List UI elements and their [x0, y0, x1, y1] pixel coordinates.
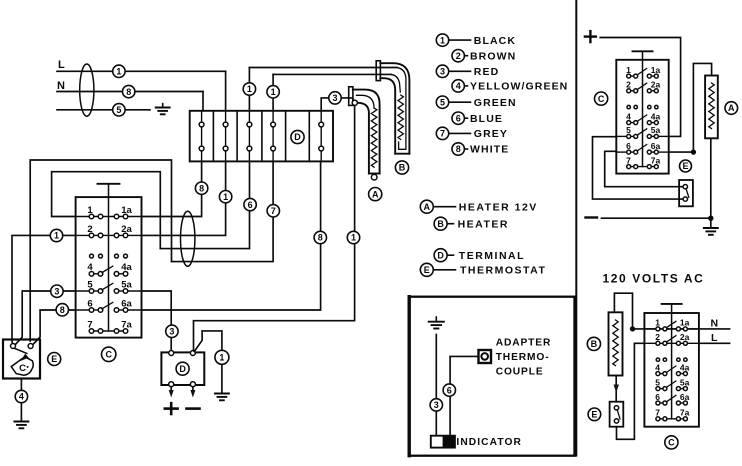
wire 1: terminal D to ground [194, 331, 222, 393]
wire N to strip cell1 [57, 91, 203, 93]
svg-text:1: 1 [223, 192, 228, 202]
svg-text:1: 1 [440, 35, 445, 45]
svg-text:1: 1 [87, 205, 93, 216]
svg-text:HEATER 12V: HEATER 12V [459, 201, 538, 213]
wire L to strip cell2 [57, 70, 226, 72]
svg-text:6a: 6a [121, 298, 132, 309]
svg-text:6: 6 [447, 385, 452, 395]
wire 1 upper (cell3 to heater B lead) [249, 67, 397, 69]
legend tag B [434, 217, 447, 230]
svg-text:E: E [51, 354, 57, 364]
svg-text:BLACK: BLACK [474, 35, 516, 47]
wire tag 5 on earth wire [113, 104, 125, 116]
connector C2 row 7 contacts [626, 155, 660, 168]
wire 3 (cell6 to heater A terminal) [321, 98, 328, 111]
wire tag 8 [195, 182, 207, 194]
svg-text:TERMINAL: TERMINAL [459, 250, 525, 262]
legend tag 6 [452, 112, 464, 124]
connector C row 7 contacts [87, 319, 132, 333]
svg-text:7a: 7a [121, 319, 132, 330]
svg-text:8: 8 [126, 87, 131, 97]
svg-text:7: 7 [655, 408, 660, 418]
svg-text:6: 6 [87, 298, 92, 309]
label E (12V panel) [680, 160, 692, 172]
ground (12V panel) [704, 228, 718, 235]
wire 5 to ground [57, 109, 150, 111]
svg-text:6a: 6a [651, 141, 661, 151]
terminal D body [161, 351, 204, 387]
svg-text:7: 7 [87, 319, 92, 330]
svg-text:E: E [591, 410, 597, 420]
svg-text:C: C [668, 438, 675, 448]
wire 1: C row2 to thermostat E [12, 235, 76, 346]
wire tag 3 [430, 399, 442, 411]
cable sheath ellipse (mains lead) [80, 64, 94, 116]
wire tag 1 on L wire [113, 65, 125, 77]
connector C3 row 6 contacts [655, 392, 689, 405]
wire tag 1 on cell4 wire [267, 86, 279, 98]
svg-text:1: 1 [247, 84, 252, 94]
connector C2 row 2 contacts [626, 80, 660, 93]
wire tag 6 [244, 198, 256, 210]
wire 6: thermocouple to indicator [450, 356, 478, 435]
wire tag 3 [51, 285, 63, 297]
svg-text:A: A [728, 103, 735, 113]
legend tag 4 [452, 80, 464, 92]
svg-text:7: 7 [440, 129, 445, 139]
wire 8: C row6 to thermostat E [32, 310, 76, 346]
ground below terminal D [215, 394, 229, 401]
svg-text:5a: 5a [680, 377, 690, 387]
svg-text:B: B [399, 163, 406, 173]
svg-text:GREY: GREY [474, 128, 508, 140]
heater B element (120V panel) [609, 312, 623, 375]
svg-text:1: 1 [54, 231, 59, 241]
svg-text:4a: 4a [651, 111, 661, 121]
legend tag 5 [436, 96, 448, 108]
legend tag A [420, 200, 433, 213]
wire tag 1 [50, 229, 62, 241]
connector C body [76, 184, 142, 338]
wire: thermostat E to C row2 [617, 343, 645, 439]
connector C3 body [644, 304, 699, 427]
label D inside strip [291, 130, 304, 143]
svg-text:C: C [19, 363, 26, 374]
wire tag 1 [215, 350, 229, 364]
svg-text:120 VOLTS AC: 120 VOLTS AC [603, 271, 705, 285]
svg-text:BROWN: BROWN [470, 50, 516, 62]
wire 8: C row1a to strip cell1 [142, 161, 202, 216]
svg-text:2: 2 [626, 80, 631, 90]
heater B tube [376, 61, 409, 154]
connector C3 row 1 contacts [644, 318, 699, 331]
connector C2 row 6 contacts [616, 141, 668, 154]
wire 1: C row2a to strip cell2 [142, 161, 226, 235]
svg-text:B: B [437, 219, 444, 229]
svg-text:C: C [105, 350, 112, 360]
svg-text:2: 2 [655, 332, 660, 342]
wire 4: thermostat E to ground [20, 379, 22, 422]
svg-text:1: 1 [271, 87, 276, 97]
connector C2 row blank contacts [627, 105, 658, 108]
label E [48, 353, 61, 366]
svg-text:6: 6 [626, 141, 631, 151]
svg-text:5a: 5a [121, 279, 132, 290]
svg-text:BLUE: BLUE [470, 113, 503, 125]
thermostat E body [3, 340, 40, 379]
connector C3 row 2 contacts [644, 332, 699, 345]
svg-text:THERMOSTAT: THERMOSTAT [460, 265, 546, 277]
wire: C row5 to thermostat E bottom [593, 137, 684, 199]
wire: heater A bottom to minus/ground [710, 138, 712, 227]
svg-text:C: C [598, 94, 605, 104]
connector C row 4 contacts [87, 262, 132, 276]
svg-text:THERMO-: THERMO- [496, 352, 550, 363]
label C (12V panel) [595, 92, 608, 105]
svg-text:E: E [682, 161, 688, 171]
terminal strip D body [190, 111, 333, 162]
legend tag 2 [452, 50, 464, 62]
svg-text:1: 1 [116, 67, 121, 77]
wire: C row6 to thermostat E top [605, 151, 683, 186]
thermostat E (12V panel) [679, 180, 693, 206]
connector C row 5 contacts [76, 279, 142, 293]
svg-text:E: E [424, 265, 430, 275]
connector C3 row 7 contacts [655, 408, 689, 421]
wire tag 1 (heater A lead) [347, 231, 359, 243]
connector C3 row blank contacts [656, 358, 687, 361]
svg-text:N: N [711, 318, 719, 330]
label C (120V panel) [665, 436, 678, 449]
connector C row 6 contacts [76, 298, 142, 312]
wire 8: C row6a to strip cell6 [142, 161, 321, 310]
legend tag 3 [436, 65, 448, 77]
svg-text:7: 7 [271, 206, 276, 216]
wire tag 3 [166, 325, 178, 337]
legend tag D [434, 249, 447, 262]
plus symbol (12V supply) [585, 31, 596, 42]
svg-text:N: N [57, 80, 65, 92]
svg-text:2a: 2a [680, 332, 690, 342]
wire loop: thermostat E around top (to wire 7) [30, 160, 171, 341]
connector C2 row 1 contacts [626, 65, 660, 78]
svg-text:YELLOW/GREEN: YELLOW/GREEN [470, 81, 568, 93]
svg-text:5: 5 [440, 97, 445, 107]
svg-text:2: 2 [87, 224, 92, 235]
svg-text:COUPLE: COUPLE [496, 366, 544, 377]
heater A tube [349, 87, 380, 180]
wire tag 8 [314, 231, 326, 243]
wire 3: C row5a to terminal D [142, 291, 172, 352]
svg-text:4: 4 [87, 262, 93, 273]
svg-text:6a: 6a [680, 392, 690, 402]
wire loop: C row1 around top (to wire 6) [52, 172, 161, 249]
wire tag 3 [329, 92, 341, 104]
wire tag 1 [219, 191, 231, 203]
label B (heater) [395, 161, 408, 174]
label E (120V panel) [588, 408, 601, 421]
panel divider border [575, 0, 577, 456]
svg-text:RED: RED [474, 66, 499, 78]
svg-text:4a: 4a [680, 362, 690, 372]
svg-text:5a: 5a [651, 125, 661, 135]
legend tag 1 [436, 34, 448, 46]
svg-text:1: 1 [655, 318, 660, 328]
connector C2 body [616, 51, 668, 173]
svg-text:3: 3 [332, 93, 337, 103]
minus symbol [187, 407, 200, 410]
svg-text:8: 8 [318, 233, 323, 243]
svg-text:2a: 2a [651, 80, 661, 90]
svg-text:3: 3 [434, 400, 439, 410]
svg-text:1a: 1a [651, 65, 661, 75]
svg-text:3: 3 [169, 327, 174, 337]
wire tag 8 [56, 304, 68, 316]
ground (adapter box) [429, 317, 444, 329]
minus symbol and return wire [586, 216, 711, 219]
connector C row blank contacts [90, 254, 128, 258]
svg-text:8: 8 [456, 144, 461, 154]
wire tag 7 [267, 205, 279, 217]
svg-text:7: 7 [626, 155, 631, 165]
svg-text:5: 5 [655, 377, 660, 387]
svg-text:6: 6 [456, 113, 461, 123]
svg-text:B: B [591, 339, 598, 349]
wire N: junction to right [633, 328, 730, 330]
terminal strip D contacts [199, 111, 323, 162]
svg-text:1: 1 [626, 65, 631, 75]
output leads with arrows to + and - [169, 387, 196, 398]
svg-text:1a: 1a [121, 205, 132, 216]
wire 1 lower (cell4 to heater B lead) [273, 73, 391, 75]
thermostat E (120V panel) [610, 402, 624, 427]
connector C3 row 4 contacts [655, 362, 689, 375]
svg-text:4: 4 [626, 111, 631, 121]
legend tag 8 [452, 143, 464, 155]
svg-text:6: 6 [248, 200, 253, 210]
svg-text:WHITE: WHITE [470, 144, 509, 156]
wire tag 1 on cell3 wire [243, 83, 255, 95]
svg-text:ADAPTER: ADAPTER [496, 337, 552, 348]
svg-text:5: 5 [626, 125, 631, 135]
connector C row 2 contacts [76, 224, 142, 238]
wire 7: outer loop to strip cell4 [172, 161, 274, 261]
label C below connector [102, 347, 116, 361]
wire tag 6 [443, 384, 455, 396]
ground below thermostat E [14, 422, 28, 429]
svg-text:3: 3 [440, 67, 445, 77]
svg-text:7a: 7a [651, 155, 661, 165]
connector C row 1 contacts [76, 205, 142, 219]
adapter thermocouple [479, 350, 492, 363]
svg-text:2: 2 [456, 51, 461, 61]
wire 3: C row5 to thermostat E [15, 291, 76, 346]
svg-text:8: 8 [60, 305, 65, 315]
svg-text:4a: 4a [121, 262, 132, 273]
svg-text:6: 6 [655, 392, 660, 402]
wire 6: inner loop to strip cell3 [160, 161, 249, 248]
connector C2 row 4 contacts [626, 111, 660, 124]
wire: C row6a to heater A top [669, 63, 712, 152]
label A (12V panel) [725, 102, 738, 115]
legend tag 7 [436, 127, 448, 139]
svg-text:1: 1 [219, 353, 224, 363]
adapter-indicator enclosure [409, 297, 575, 456]
connector C3 row 5 contacts [655, 377, 689, 390]
label A (heater 12V) [369, 188, 382, 201]
svg-text:5: 5 [116, 105, 121, 115]
svg-text:1a: 1a [680, 318, 690, 328]
wire: + to C row5a [600, 38, 680, 137]
legend tag E [420, 263, 433, 276]
svg-text:4: 4 [655, 362, 660, 372]
svg-text:L: L [58, 59, 65, 71]
svg-text:GREEN: GREEN [474, 97, 517, 109]
svg-text:A: A [424, 202, 431, 212]
indicator lamp [431, 436, 455, 448]
wire tag 4 [15, 390, 27, 402]
wire: heater A terminal down to terminal D [194, 105, 355, 351]
connector C2 row 5 contacts [616, 125, 668, 138]
wire: heater B top to N junction [614, 293, 632, 329]
label D [176, 362, 189, 375]
wire L: C row2a to right [699, 342, 730, 344]
svg-text:L: L [711, 332, 718, 344]
svg-text:4: 4 [19, 392, 24, 402]
svg-text:D: D [294, 132, 301, 142]
ground (earth of mains lead) [156, 104, 170, 115]
svg-text:5: 5 [87, 279, 93, 290]
wire with arrow: heater B to thermostat E [614, 376, 620, 402]
cable sheath ellipse (loom to connector C) [181, 211, 195, 266]
svg-text:7a: 7a [680, 408, 690, 418]
svg-text:4: 4 [456, 81, 461, 91]
svg-text:3: 3 [54, 286, 59, 296]
svg-text:8: 8 [199, 183, 204, 193]
plus symbol [165, 403, 178, 414]
wire 3: ground to indicator [435, 335, 437, 436]
svg-text:D: D [179, 364, 186, 374]
svg-text:1: 1 [351, 233, 356, 243]
svg-text:HEATER: HEATER [458, 218, 509, 230]
svg-text:A: A [372, 189, 379, 199]
heater A element (12V panel) [705, 76, 718, 139]
svg-text:D: D [437, 250, 444, 260]
wire tag 8 on N wire [123, 85, 135, 97]
svg-text:2a: 2a [121, 224, 132, 235]
svg-text:INDICATOR: INDICATOR [456, 437, 522, 448]
label B (120V panel) [587, 337, 600, 350]
